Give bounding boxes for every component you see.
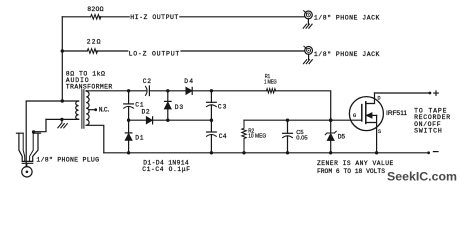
phone jack J2 — [305, 47, 313, 55]
phone jack J1 — [305, 11, 313, 19]
svg-text:IRF511: IRF511 — [386, 110, 408, 117]
wire middle rail D2 to C3 column — [153, 119, 212, 121]
wire N.C. tap — [89, 109, 95, 111]
node junction C3 top — [210, 89, 213, 92]
svg-text:FROM 6 TO 18 VOLTS: FROM 6 TO 18 VOLTS — [317, 168, 385, 175]
capacitor C5 — [287, 120, 289, 133]
svg-text:1 MEG: 1 MEG — [264, 80, 277, 86]
svg-text:C3: C3 — [218, 103, 227, 110]
node junction C3 bottom — [210, 119, 213, 122]
phone plug P1 body — [16, 132, 40, 134]
ground below jack J1 — [307, 19, 309, 24]
node junction source ground — [375, 151, 378, 154]
node junction plug sleeve — [32, 130, 35, 133]
transistor Q1 gate bar — [361, 105, 363, 121]
resistor R2 — [242, 120, 246, 153]
node junction D3 top — [166, 89, 169, 92]
svg-text:82OΩ: 82OΩ — [87, 6, 103, 13]
node junction C4 ground — [210, 151, 213, 154]
node N.C. — [94, 108, 97, 111]
label plus — [434, 91, 439, 96]
svg-text:D4: D4 — [184, 78, 193, 85]
node junction C1 top — [127, 89, 130, 92]
wire top rail from secondary — [86, 90, 146, 92]
wire to plug sleeve — [34, 119, 46, 133]
svg-text:C1: C1 — [135, 101, 143, 108]
node junction C5 top — [286, 119, 289, 122]
svg-text:S: S — [378, 129, 381, 135]
svg-text:0.05: 0.05 — [296, 136, 307, 142]
svg-text:D: D — [378, 95, 381, 101]
wire HI-Z rail left segment — [62, 16, 90, 18]
wire HI-Z rail label to jack J1 — [180, 16, 305, 18]
resistor 22 ohm — [87, 49, 97, 54]
transistor Q1 IRF511 circle — [349, 97, 383, 131]
node terminal minus — [427, 151, 430, 154]
wire middle rail to D2 — [129, 119, 147, 121]
svg-text:10 MEG: 10 MEG — [248, 134, 266, 140]
phone plug P1 tip circle — [22, 167, 32, 177]
wire to plug tip — [26, 101, 62, 167]
transformer T1 primary lead bottom — [46, 118, 79, 120]
svg-text:N.C.: N.C. — [99, 107, 111, 114]
node terminal plus — [429, 92, 432, 95]
svg-text:ZENER IS ANY VALUE: ZENER IS ANY VALUE — [317, 160, 394, 167]
capacitor C1 — [128, 91, 130, 104]
node junction D5 ground — [329, 151, 332, 154]
svg-text:C1-C4 O.1μF: C1-C4 O.1μF — [142, 166, 190, 173]
capacitor C4 — [210, 120, 212, 132]
node junction gate rail / R1 drop — [329, 119, 332, 122]
wire HI-Z rail to label — [99, 16, 129, 18]
transistor Q1 source lead — [366, 115, 377, 152]
svg-text:22Ω: 22Ω — [87, 38, 101, 45]
svg-text:1/8" PHONE PLUG: 1/8" PHONE PLUG — [36, 156, 99, 163]
wire top rail D4 to R1 — [192, 90, 266, 92]
node junction C1 bottom — [127, 119, 130, 122]
node junction C5 ground — [286, 151, 289, 154]
wire top rail R1 to gate drop — [276, 91, 331, 120]
svg-text:D1: D1 — [135, 134, 143, 141]
wire drain rail — [375, 92, 430, 94]
transformer T1 core — [82, 90, 84, 129]
svg-text:SeekIC.com: SeekIC.com — [387, 170, 457, 184]
ground below jack J2 — [308, 54, 310, 59]
wire ground rail — [104, 152, 429, 154]
node junction primary ground — [60, 118, 63, 121]
svg-text:LO-Z OUTPUT: LO-Z OUTPUT — [129, 51, 180, 58]
resistor R1 — [266, 89, 275, 93]
svg-text:D5: D5 — [338, 133, 346, 140]
wire LO-Z rail to label — [96, 50, 128, 52]
node junction D3 bottom — [166, 119, 169, 122]
diode D2 — [146, 117, 152, 124]
svg-text:G: G — [353, 113, 356, 119]
svg-text:SWITCH: SWITCH — [414, 128, 442, 135]
ground at primary — [61, 119, 63, 122]
node junction LO-Z tap — [61, 49, 64, 52]
node junction primary top — [61, 99, 64, 102]
node junction D1 ground — [127, 151, 130, 154]
wire LO-Z rail label to jack J2 — [181, 50, 305, 52]
transformer T1 primary lead top — [62, 100, 78, 102]
transformer T1 primary winding — [76, 101, 79, 119]
svg-text:D2: D2 — [142, 109, 150, 116]
wire left vertical bus — [61, 17, 63, 101]
svg-text:C4: C4 — [219, 133, 227, 140]
svg-text:D3: D3 — [175, 104, 184, 111]
zener diode D5 — [330, 120, 332, 133]
transistor Q1 body arrow — [366, 113, 372, 118]
capacitor C2 — [146, 86, 148, 95]
wire LO-Z rail left segment — [62, 50, 87, 52]
diode D1 — [128, 120, 130, 133]
transistor Q1 channel bar — [365, 102, 367, 124]
wire top rail C2 to D4 — [149, 90, 186, 92]
node junction R2 ground — [242, 151, 245, 154]
diode D4 — [186, 87, 192, 94]
transformer T1 secondary winding — [86, 91, 89, 126]
node junction D5 top — [329, 119, 332, 122]
wire gate rail — [244, 119, 362, 121]
wire secondary bottom to ground rail — [86, 125, 104, 153]
svg-text:1/8" PHONE JACK: 1/8" PHONE JACK — [314, 14, 380, 21]
svg-text:TRANSFORMER: TRANSFORMER — [66, 84, 113, 91]
label minus — [433, 151, 438, 153]
svg-text:C2: C2 — [143, 78, 151, 85]
capacitor C3 — [210, 91, 212, 102]
svg-text:HI-Z OUTPUT: HI-Z OUTPUT — [130, 14, 178, 21]
svg-text:1/8" PHONE JACK: 1/8" PHONE JACK — [314, 51, 380, 58]
transistor Q1 drain lead — [366, 93, 375, 104]
diode D3 — [167, 91, 169, 102]
resistor 820 ohm — [91, 14, 101, 19]
